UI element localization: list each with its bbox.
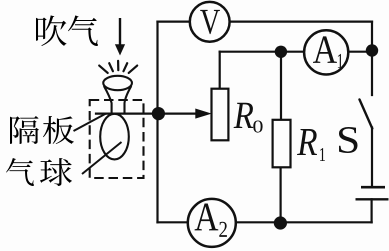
label qi (air) (68, 15, 98, 46)
air ray far-left (99, 66, 108, 73)
wire top-left horizontal to voltmeter (158, 21, 191, 23)
A2 subscript 2 (219, 222, 227, 237)
balloon mouth (trumpet rim) (103, 76, 132, 90)
ammeter A2 (188, 199, 236, 247)
balloon neck left side (104, 86, 112, 114)
junction node R1 top (275, 46, 287, 58)
air ray far-right (129, 66, 138, 73)
label qiu (ball) (40, 158, 72, 186)
wire partition to R0 slider (96, 112, 197, 114)
R1 subscript 1 (320, 148, 325, 161)
wire left vertical (156, 22, 158, 223)
ammeter A1 (304, 30, 348, 74)
label S (switch) (339, 127, 358, 153)
switch S blade (360, 100, 373, 129)
slider arrowhead into R0 (196, 109, 210, 118)
label qi (air/balloon) (6, 158, 34, 186)
wire voltmeter to top-right corner (230, 21, 373, 23)
resistor R1 (273, 120, 291, 168)
air ray middle (117, 61, 119, 70)
ammeter letter A (A2) (195, 204, 219, 231)
wire R1 bottom drop (280, 168, 282, 222)
battery positive plate (long) (356, 198, 389, 200)
junction node left (slider wire / left rail) (152, 107, 165, 120)
air ray left (109, 63, 113, 71)
label ban (board) (43, 116, 74, 144)
blow-air arrow (115, 18, 125, 56)
resistor R0 (with slider arrow) (212, 89, 229, 141)
voltmeter V (190, 2, 230, 42)
dashed sensor box (90, 100, 144, 178)
wire switch to battery vertical (371, 128, 373, 188)
balloon neck right side (125, 86, 132, 114)
junction node R1 bottom (274, 216, 287, 229)
wire R1 top drop (280, 52, 282, 120)
wire second row: R0 top corner to A1 and right vertical (220, 51, 372, 53)
wire R0 top drop (219, 52, 221, 89)
label R of R1 (297, 129, 317, 155)
label chui (blow) (36, 15, 67, 46)
junction node right rail / A1 (366, 44, 378, 56)
air ray right (124, 63, 128, 71)
voltmeter letter V (200, 10, 220, 34)
wire bottom horizontal (158, 221, 372, 223)
label ge (partition) (10, 116, 39, 144)
battery negative plate (short) (361, 186, 385, 189)
R0 subscript 0 (253, 120, 262, 132)
wire right vertical (top corner to switch) (371, 22, 373, 95)
label leader to partition (geban) (74, 114, 107, 132)
balloon (oval) (100, 114, 129, 160)
wire battery bottom vertical (371, 199, 373, 222)
label R of R0 (234, 103, 254, 128)
ammeter letter A (A1) (313, 36, 337, 63)
A1 subscript 1 (338, 54, 343, 68)
label leader to balloon (qiqiu) (82, 142, 122, 174)
